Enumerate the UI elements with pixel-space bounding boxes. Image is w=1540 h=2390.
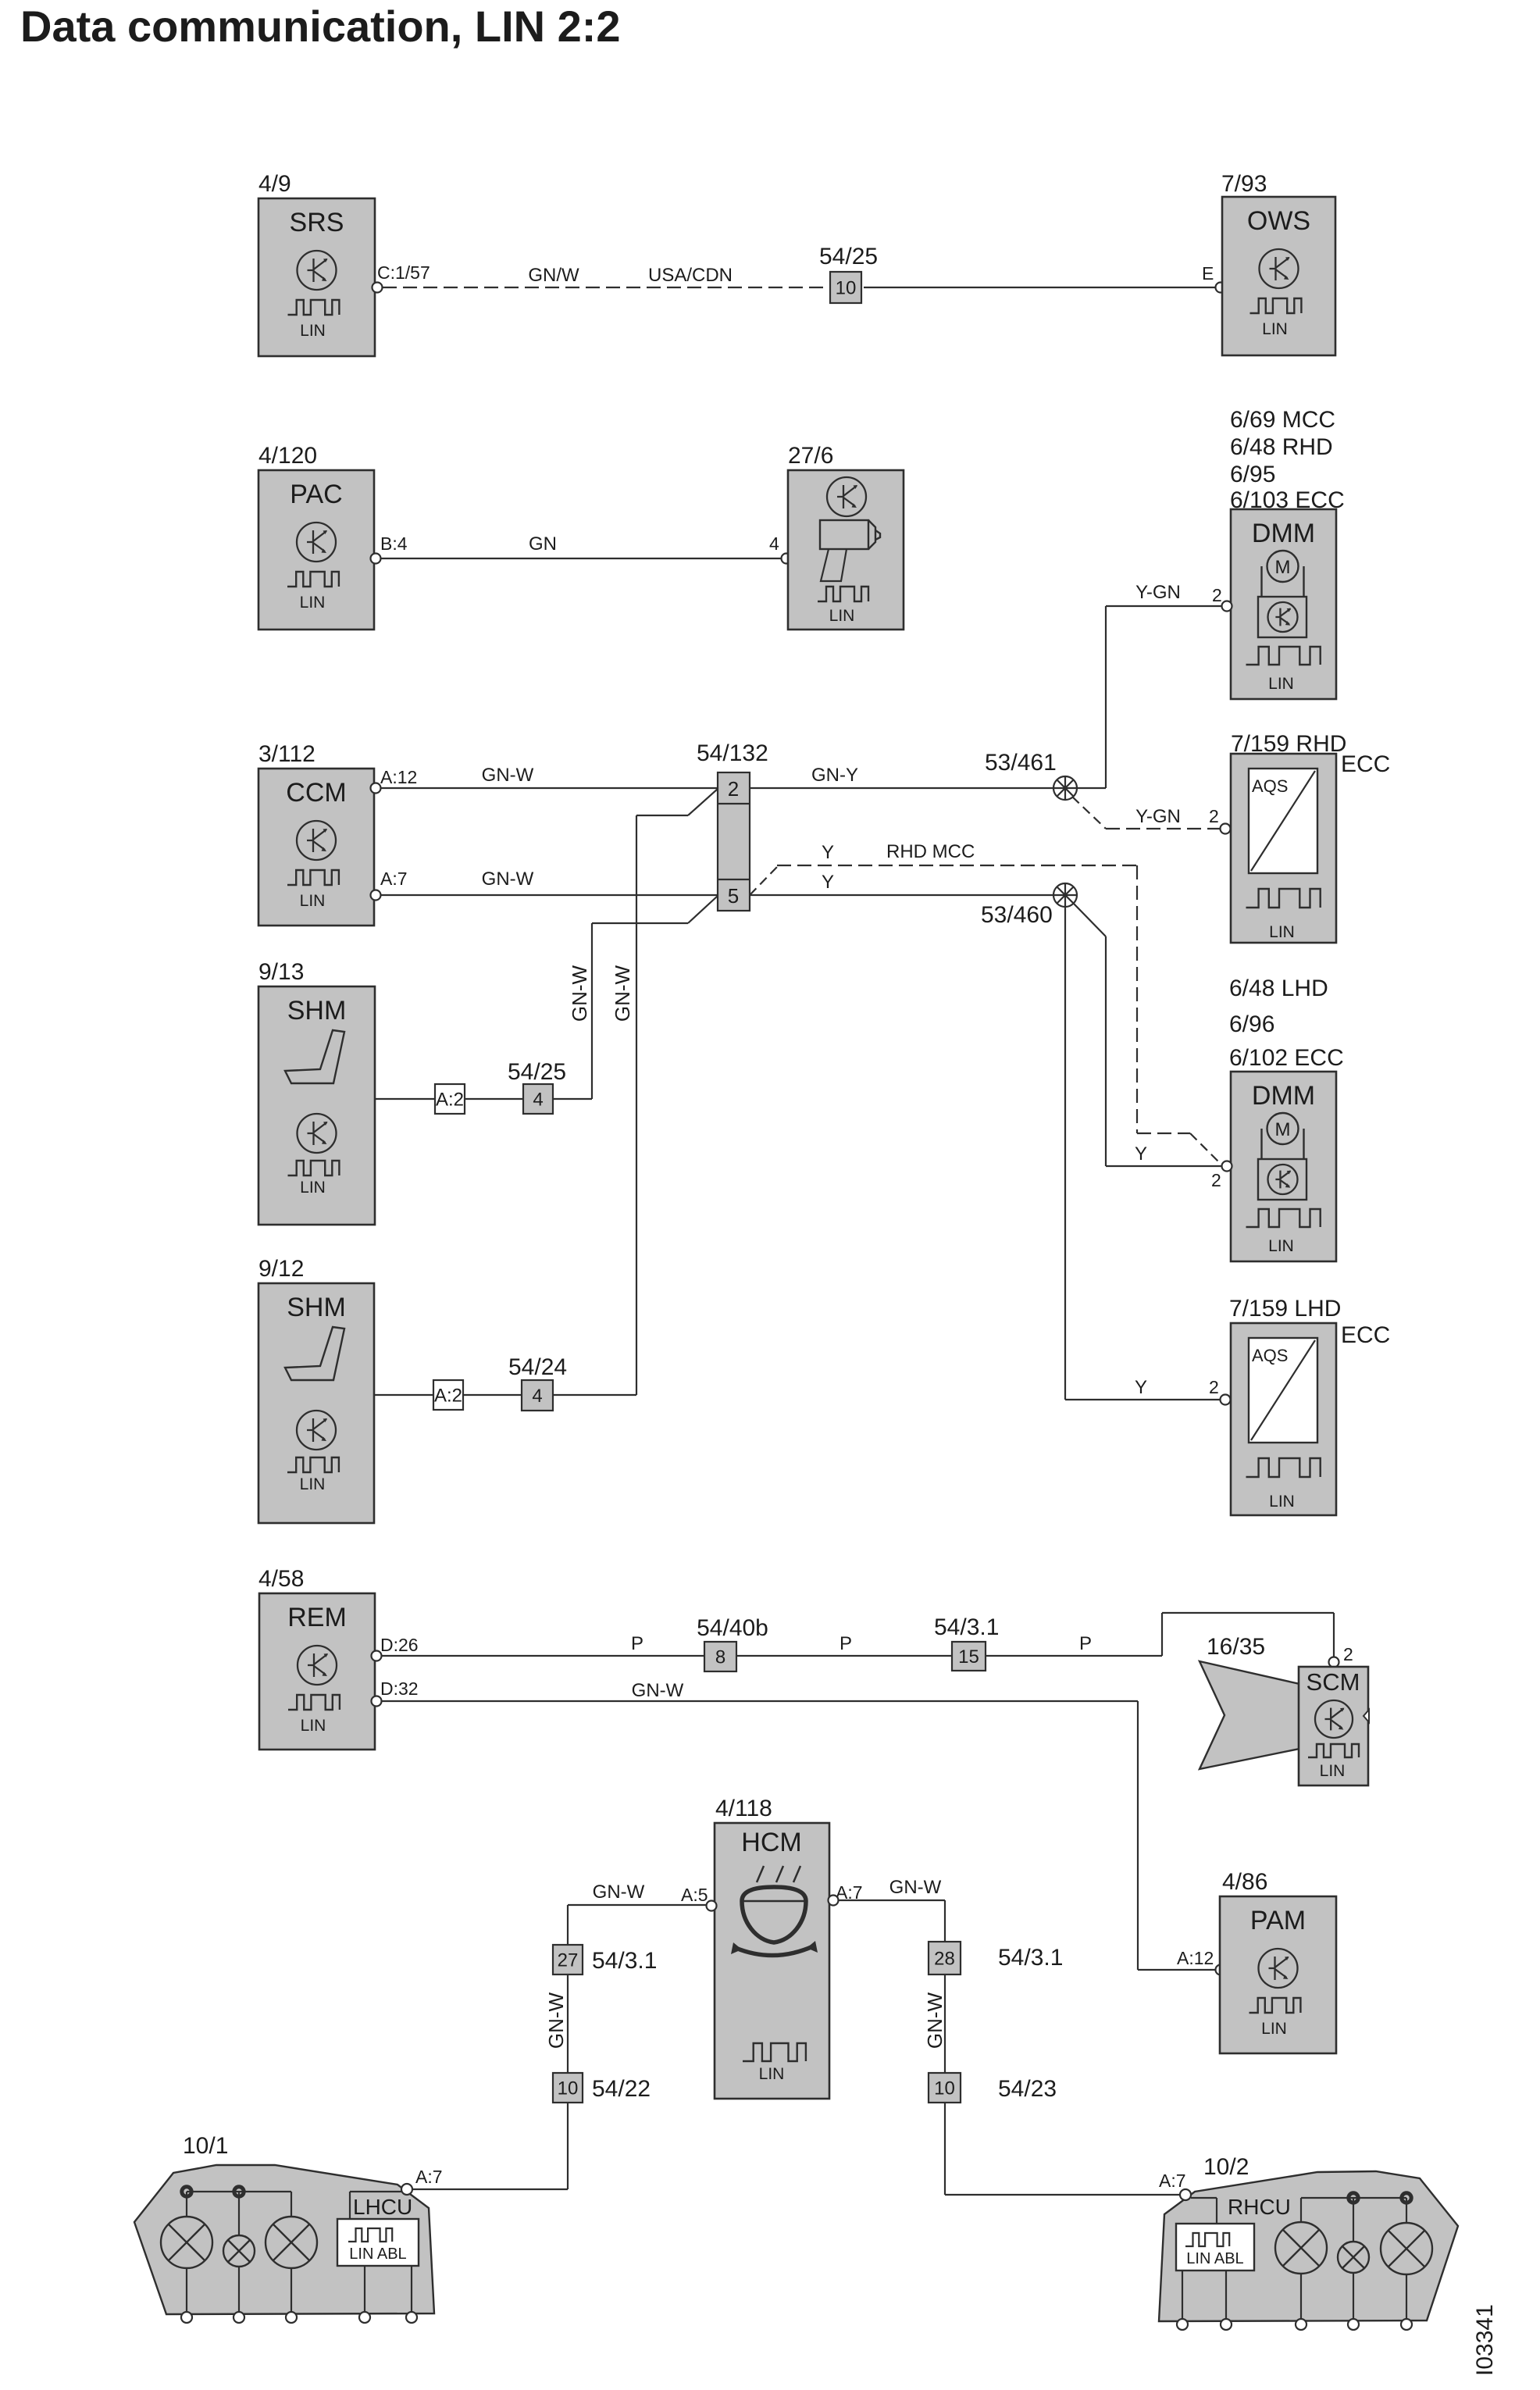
splice 53/461: [985, 750, 1077, 800]
svg-text:USA/CDN: USA/CDN: [648, 265, 733, 286]
svg-text:LIN: LIN: [301, 1717, 326, 1735]
svg-text:E: E: [1202, 263, 1214, 284]
connector 54/25 pin 4: [508, 1059, 566, 1114]
svg-text:CCM: CCM: [286, 778, 346, 808]
svg-text:2: 2: [728, 777, 739, 801]
svg-text:15: 15: [958, 1646, 979, 1668]
connector A:2 (SHM 9/12): [433, 1380, 463, 1410]
control box LHCU: [337, 2195, 419, 2313]
svg-text:GN-W: GN-W: [632, 1680, 684, 1701]
module ECC 7/159 RHD: [1231, 731, 1390, 943]
module ECC 7/159 LHD: [1229, 1296, 1390, 1515]
wire P 54/3.1 to SCM pin 2: [986, 1613, 1334, 1657]
module SHM 9/12: [258, 1256, 374, 1523]
svg-text:53/460: 53/460: [981, 902, 1053, 928]
svg-text:6/48 LHD: 6/48 LHD: [1229, 976, 1328, 1001]
wire Y splice 53/460 to DMM 6/48 LHD: [1073, 903, 1222, 1166]
connector 54/23 pin 10: [929, 2073, 1057, 2103]
svg-text:GN-W: GN-W: [568, 965, 591, 1022]
svg-text:6/96: 6/96: [1229, 1011, 1274, 1037]
junction node RHCU a: [1349, 2193, 1358, 2203]
wire GN-W CCM A:7 to 54/132 pin 5: [381, 869, 718, 895]
svg-text:16/35: 16/35: [1207, 1634, 1265, 1660]
pin 2 of DMM 6/69: [1212, 585, 1232, 612]
pin 2 of SCM: [1329, 1644, 1353, 1668]
pin 2 of ECC 7/159 RHD: [1209, 806, 1231, 834]
connector 54/132: [697, 740, 768, 911]
svg-text:M: M: [1275, 1119, 1291, 1140]
wire P 54/40b to 54/3.1: [736, 1633, 952, 1656]
pin 2 of DMM 6/48 LHD: [1211, 1161, 1232, 1191]
svg-text:10/1: 10/1: [183, 2133, 228, 2159]
figure number I03341: [1472, 2304, 1498, 2376]
svg-text:5: 5: [728, 884, 739, 908]
svg-text:10: 10: [934, 2078, 955, 2099]
wire GN-W SHM 9/13 to 54/132 pin 5: [553, 896, 718, 1099]
svg-text:4/58: 4/58: [258, 1566, 304, 1592]
svg-text:6/95: 6/95: [1230, 462, 1275, 487]
lamp RHCU small: [1338, 2198, 1369, 2320]
svg-text:LIN: LIN: [300, 892, 326, 910]
svg-text:53/461: 53/461: [985, 750, 1057, 776]
svg-text:2: 2: [1212, 585, 1222, 605]
svg-text:LHCU: LHCU: [353, 2195, 412, 2219]
svg-text:LIN: LIN: [1268, 675, 1294, 693]
junction node LHCU a: [182, 2187, 191, 2196]
pin A:7 of CCM: [371, 869, 408, 901]
pin D:26 of REM: [372, 1635, 419, 1661]
svg-text:54/24: 54/24: [508, 1354, 567, 1380]
module DMM 6/48 LHD: [1229, 976, 1344, 1261]
lamp RHCU outer: [1381, 2198, 1432, 2320]
svg-text:M: M: [1275, 557, 1291, 578]
svg-text:LIN ABL: LIN ABL: [349, 2246, 406, 2263]
svg-text:LIN: LIN: [1269, 1493, 1295, 1511]
svg-text:LIN: LIN: [1269, 923, 1295, 941]
svg-text:SHM: SHM: [287, 996, 347, 1026]
connector 54/22 pin 10: [553, 2073, 651, 2103]
module SHM 9/13: [258, 959, 375, 1225]
svg-text:GN-Y: GN-Y: [811, 765, 858, 786]
wire GN/W USA/CDN (dashed) SRS to 54/25: [383, 265, 829, 287]
svg-text:4: 4: [532, 1386, 542, 1407]
svg-text:Y: Y: [822, 872, 834, 893]
pin 2 of ECC 7/159 LHD: [1209, 1377, 1231, 1405]
svg-text:LIN: LIN: [1268, 1237, 1294, 1255]
svg-text:54/23: 54/23: [998, 2076, 1057, 2102]
lamp RHCU inner: [1275, 2198, 1327, 2320]
wire P REM D:26 to 54/40b: [382, 1633, 704, 1656]
wire GN-W 54/3.1 to 54/23: [923, 1974, 946, 2073]
svg-text:9/13: 9/13: [258, 959, 304, 985]
svg-text:27/6: 27/6: [788, 443, 833, 469]
svg-text:GN-W: GN-W: [544, 1992, 568, 2049]
lamp LHCU outer: [161, 2192, 212, 2313]
module CCM 3/112: [258, 741, 374, 926]
module HCM 4/118: [715, 1796, 829, 2099]
svg-text:4/9: 4/9: [258, 171, 291, 197]
svg-text:ECC: ECC: [1341, 1322, 1390, 1348]
connector 54/24 pin 4: [508, 1354, 567, 1411]
svg-text:54/3.1: 54/3.1: [934, 1614, 999, 1640]
svg-text:LIN: LIN: [759, 2065, 785, 2083]
wire RHCU internal bus: [1191, 2198, 1406, 2224]
svg-text:I03341: I03341: [1472, 2304, 1498, 2376]
svg-text:2: 2: [1209, 1377, 1219, 1397]
svg-text:SRS: SRS: [290, 208, 344, 237]
wire A:2 to 54/25 pin 4: [465, 1098, 523, 1100]
svg-text:Data communication, LIN 2:2: Data communication, LIN 2:2: [20, 2, 621, 51]
svg-text:LIN: LIN: [1320, 1762, 1346, 1780]
connector 54/40b pin 8: [697, 1615, 768, 1671]
svg-text:LIN: LIN: [300, 322, 326, 340]
pin A:7 of HCM: [829, 1882, 863, 1906]
module 27/6: [788, 443, 904, 630]
svg-text:PAM: PAM: [1250, 1906, 1306, 1935]
svg-text:4/120: 4/120: [258, 443, 317, 469]
wire 54/22 to LHCU A:7: [412, 2103, 568, 2189]
wire GN-W HCM A:5 to LHCU: [568, 1882, 706, 1945]
module REM 4/58: [258, 1566, 375, 1750]
svg-text:Y-GN: Y-GN: [1135, 806, 1181, 827]
svg-text:3/112: 3/112: [258, 741, 315, 767]
svg-text:REM: REM: [287, 1603, 347, 1632]
svg-text:A:7: A:7: [380, 869, 408, 889]
svg-text:7/159 LHD: 7/159 LHD: [1229, 1296, 1341, 1322]
pin 4 of 27/6: [769, 533, 792, 564]
junction node LHCU b: [234, 2187, 244, 2196]
lamp LHCU inner: [266, 2192, 317, 2313]
wire GN-W CCM A:12 to 54/132 pin 2: [381, 765, 718, 788]
svg-text:LIN: LIN: [1262, 320, 1288, 338]
svg-text:DMM: DMM: [1252, 519, 1315, 548]
junction node RHCU b: [1402, 2193, 1411, 2203]
splice 53/460: [981, 883, 1077, 928]
wire GN PAC to 27/6: [381, 533, 783, 558]
svg-text:2: 2: [1209, 806, 1219, 826]
svg-text:10: 10: [558, 2078, 579, 2099]
svg-text:4: 4: [533, 1090, 543, 1111]
svg-text:4: 4: [769, 533, 779, 554]
connector 54/3.1 pin 15: [934, 1614, 999, 1671]
svg-text:54/25: 54/25: [819, 244, 878, 269]
svg-text:LIN: LIN: [1261, 2020, 1287, 2038]
svg-text:LIN: LIN: [300, 1475, 326, 1493]
pin C:1/57 of SRS: [373, 262, 430, 293]
wire Y (dashed) RHD MCC to DMM 6/48 LHD: [750, 841, 1221, 1165]
svg-text:54/22: 54/22: [592, 2076, 651, 2102]
wire Y splice 53/460 to ECC 7/159 LHD: [1065, 907, 1221, 1400]
terminals LHCU: [181, 2312, 417, 2323]
svg-text:P: P: [631, 1633, 643, 1654]
svg-text:7/93: 7/93: [1221, 171, 1267, 197]
headlamp unit 10/2 housing: [1159, 2154, 1458, 2321]
module PAC 4/120: [258, 443, 374, 630]
svg-text:A:12: A:12: [1177, 1948, 1214, 1968]
module PAM 4/86: [1220, 1869, 1336, 2053]
wire A:2 to 54/24 pin 4: [463, 1394, 522, 1396]
svg-text:OWS: OWS: [1247, 206, 1310, 236]
svg-text:10/2: 10/2: [1203, 2154, 1249, 2180]
svg-text:SCM: SCM: [1307, 1668, 1360, 1696]
svg-text:B:4: B:4: [380, 533, 408, 554]
svg-text:6/102 ECC: 6/102 ECC: [1229, 1045, 1344, 1071]
svg-text:54/132: 54/132: [697, 740, 768, 766]
svg-text:A:7: A:7: [415, 2167, 443, 2187]
connector A:2 (SHM 9/13): [435, 1084, 465, 1114]
connector 54/3.1 pin 28: [929, 1942, 1063, 1974]
svg-text:PAC: PAC: [290, 480, 342, 509]
pin E of OWS: [1202, 263, 1226, 293]
svg-text:9/12: 9/12: [258, 1256, 304, 1282]
module OWS 7/93: [1221, 171, 1335, 355]
svg-text:DMM: DMM: [1252, 1081, 1315, 1111]
svg-text:LIN: LIN: [300, 1179, 326, 1197]
pin B:4 of PAC: [371, 533, 408, 564]
svg-text:LIN: LIN: [300, 594, 326, 612]
svg-text:A:7: A:7: [1159, 2171, 1186, 2191]
module SCM 16/35: [1299, 1667, 1369, 1785]
wire Y 54/132 pin 5 to splice 53/460: [750, 872, 1065, 895]
svg-text:4/86: 4/86: [1222, 1869, 1267, 1895]
svg-text:C:1/57: C:1/57: [377, 262, 430, 283]
svg-text:GN-W: GN-W: [889, 1877, 942, 1898]
svg-text:AQS: AQS: [1252, 1346, 1288, 1365]
wire 54/25 to OWS pin E: [864, 287, 1217, 288]
pin A:7 of LHCU: [401, 2167, 443, 2195]
svg-text:Y: Y: [822, 842, 834, 863]
wire Y-GN splice 53/461 to DMM 6/69: [1106, 582, 1222, 788]
terminals RHCU: [1177, 2319, 1412, 2330]
svg-text:Y: Y: [1135, 1143, 1147, 1165]
wire GN-W REM D:32 to PAM A:12: [382, 1680, 1216, 1970]
svg-text:54/25: 54/25: [508, 1059, 566, 1085]
svg-text:Y-GN: Y-GN: [1135, 582, 1181, 603]
svg-text:LIN: LIN: [829, 607, 855, 625]
lamp LHCU small: [223, 2192, 255, 2313]
svg-text:GN/W: GN/W: [528, 265, 579, 286]
svg-text:4/118: 4/118: [715, 1796, 772, 1821]
wire Y-GN (dashed) splice 53/461 to ECC 7/159 RHD: [1072, 797, 1221, 829]
svg-text:10: 10: [836, 278, 857, 299]
svg-text:RHD MCC: RHD MCC: [886, 841, 975, 862]
svg-text:2: 2: [1211, 1170, 1221, 1190]
control box RHCU: [1176, 2195, 1291, 2320]
svg-text:A:5: A:5: [681, 1885, 708, 1905]
svg-text:6/69 MCC: 6/69 MCC: [1230, 407, 1335, 433]
connector 54/25 pin 10: [819, 244, 878, 303]
wire GN-W HCM A:7 to RHCU: [839, 1877, 945, 1942]
wire GN-W SHM 9/12 to 54/132 pin 2: [553, 789, 718, 1395]
svg-text:Y: Y: [1135, 1377, 1147, 1398]
svg-text:LIN ABL: LIN ABL: [1186, 2250, 1243, 2267]
steering wheel pointer 16/35: [1200, 1634, 1299, 1769]
svg-text:D:26: D:26: [380, 1635, 419, 1655]
wire LHCU internal bus: [187, 2192, 401, 2219]
svg-text:2: 2: [1343, 1644, 1353, 1664]
wire GN-Y 54/132 pin 2 to splice 53/461: [750, 765, 1106, 788]
svg-text:HCM: HCM: [741, 1828, 801, 1857]
svg-text:GN-W: GN-W: [482, 765, 534, 786]
svg-text:AQS: AQS: [1252, 776, 1288, 796]
svg-text:GN-W: GN-W: [482, 869, 534, 890]
svg-text:ECC: ECC: [1341, 751, 1390, 777]
wire 54/23 to RHCU A:7: [945, 2103, 1181, 2195]
svg-text:P: P: [1079, 1633, 1092, 1654]
pin A:12 of PAM: [1177, 1948, 1226, 1975]
svg-text:28: 28: [934, 1949, 955, 1970]
svg-text:8: 8: [715, 1647, 725, 1668]
connector 54/3.1 pin 27: [553, 1945, 657, 1974]
module SRS 4/9: [258, 171, 375, 356]
svg-text:54/3.1: 54/3.1: [592, 1948, 657, 1974]
svg-text:SHM: SHM: [287, 1293, 346, 1322]
svg-text:54/3.1: 54/3.1: [998, 1945, 1063, 1971]
svg-text:RHCU: RHCU: [1228, 2195, 1291, 2219]
svg-text:P: P: [840, 1633, 852, 1654]
pin D:32 of REM: [372, 1678, 419, 1707]
pin A:5 of HCM: [681, 1885, 717, 1911]
svg-text:54/40b: 54/40b: [697, 1615, 768, 1641]
wire GN-W 54/3.1 to 54/22: [544, 1974, 568, 2073]
title: [20, 2, 621, 51]
svg-text:GN-W: GN-W: [923, 1992, 946, 2049]
svg-text:A:2: A:2: [434, 1386, 462, 1407]
module DMM 6/69 MCC: [1230, 407, 1345, 699]
pin A:7 of RHCU: [1159, 2171, 1191, 2200]
svg-text:GN: GN: [529, 533, 557, 555]
svg-text:6/48 RHD: 6/48 RHD: [1230, 434, 1333, 460]
wire SHM 9/12 to A:2: [374, 1394, 433, 1396]
svg-text:D:32: D:32: [380, 1678, 419, 1699]
wire SHM 9/13 to A:2: [375, 1098, 435, 1100]
svg-text:GN-W: GN-W: [611, 965, 634, 1022]
svg-text:A:12: A:12: [380, 767, 417, 787]
svg-text:GN-W: GN-W: [593, 1882, 645, 1903]
headlamp unit 10/1 housing: [134, 2133, 434, 2314]
svg-text:A:2: A:2: [436, 1090, 464, 1111]
svg-text:27: 27: [558, 1950, 579, 1971]
pin A:12 of CCM: [371, 767, 418, 794]
